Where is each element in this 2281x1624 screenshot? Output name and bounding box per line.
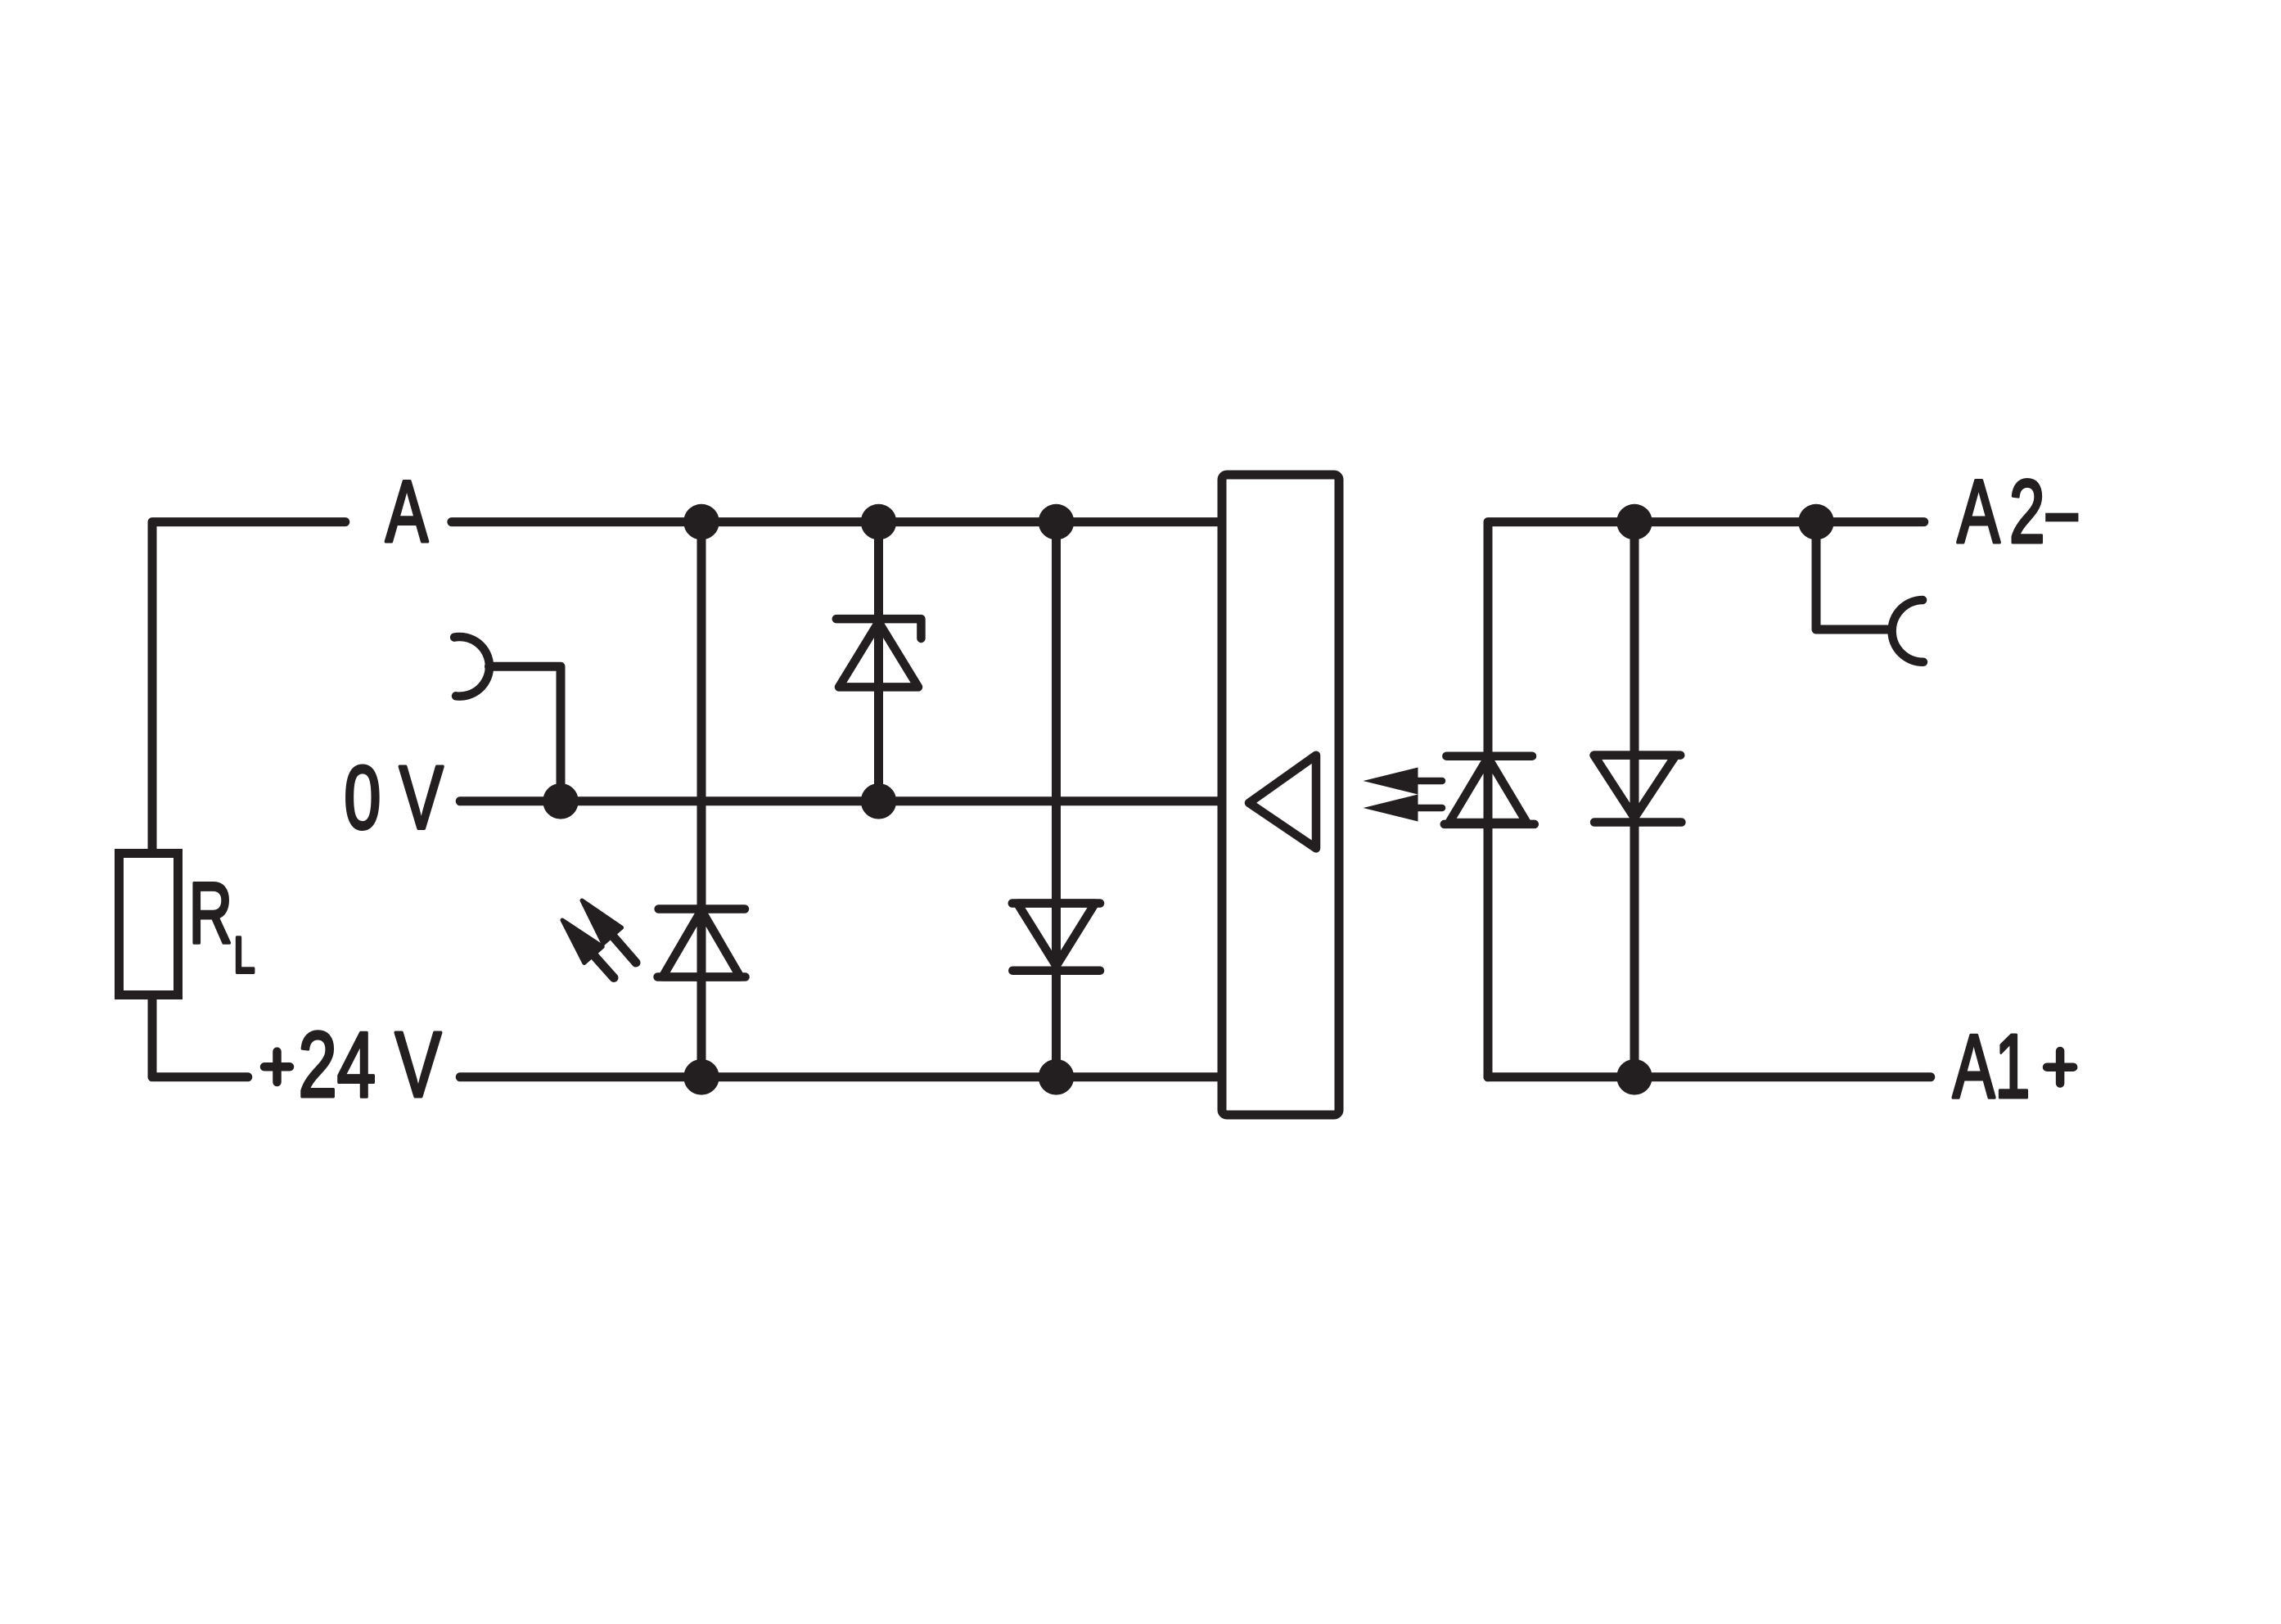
- svg-text:0 V: 0 V: [344, 748, 443, 848]
- LED D1 emission arrow 2: [562, 920, 614, 978]
- LED D1 status indicator (cathode bar top): [658, 909, 746, 977]
- label +24 V (plus sign drawn): [264, 1052, 290, 1082]
- wire from node A to load resistor (top-left corner): [152, 522, 345, 853]
- resistor RL: [119, 854, 178, 995]
- optocoupler emitter LED D3: [1445, 756, 1535, 824]
- optocoupler light arrow 1: [1364, 768, 1443, 795]
- label 0 V: [344, 748, 443, 848]
- junction dot 0V/zener branch: [861, 783, 897, 819]
- wire net A1+ rail: [1488, 1072, 1931, 1081]
- svg-text:R: R: [189, 865, 232, 962]
- wire branch of status LED (A to +24V): [697, 522, 706, 1077]
- junction dot A/diode branch: [1039, 504, 1075, 540]
- junction dot +24V/LED branch: [683, 1059, 719, 1095]
- label A1+ (plus drawn): [1953, 1017, 2031, 1117]
- svg-text:L: L: [233, 927, 255, 984]
- wire net A2- rail: [1488, 522, 1924, 1077]
- wire net +24V horizontal rail: [460, 1072, 1222, 1081]
- junction dot +24V/diode branch: [1039, 1059, 1075, 1095]
- junction dot A1+/diode branch: [1616, 1059, 1652, 1095]
- diode D2 polarity protection: [1012, 904, 1100, 971]
- wire net 0V horizontal rail: [460, 796, 1222, 805]
- svg-text:A2: A2: [1957, 462, 2054, 562]
- wire branch of suppressor diode (A to 0V): [874, 522, 883, 801]
- socket contact at A2-: [1892, 600, 1923, 662]
- wire branch of freewheeling diode (A2- to A1+): [1630, 522, 1639, 1077]
- junction dot A/LED branch: [683, 504, 719, 540]
- label RL: [189, 865, 232, 962]
- wire branch of reverse diode (A to +24V): [1052, 522, 1061, 1077]
- junction dot A2-/socket branch: [1798, 504, 1834, 540]
- optocoupler body U1: [1222, 475, 1339, 1115]
- svg-text:24 V: 24 V: [299, 1013, 442, 1117]
- LED D1 emission arrow 1: [582, 900, 636, 963]
- label A: [385, 463, 429, 561]
- junction dot A/zener branch: [861, 504, 897, 540]
- wire from A2- rail to socket contact: [1816, 522, 1887, 629]
- svg-text:A1: A1: [1953, 1017, 2031, 1117]
- junction dot A2-/diode branch: [1616, 504, 1652, 540]
- optocoupler receiver triangle: [1249, 756, 1316, 849]
- optocoupler light arrow 2: [1364, 795, 1443, 822]
- freewheeling diode D4: [1594, 756, 1682, 823]
- zener suppressor diode Z1: [836, 619, 922, 687]
- wire from socket contact to 0V rail: [489, 666, 561, 801]
- wire net A horizontal rail: [452, 517, 1222, 526]
- svg-text:A: A: [385, 463, 429, 561]
- label A2- (dash drawn): [1957, 462, 2054, 562]
- junction dot 0V/socket wire: [543, 783, 579, 819]
- wire resistor bottom to +24V rail: [152, 995, 248, 1077]
- socket contact at 0V input: [454, 637, 489, 697]
